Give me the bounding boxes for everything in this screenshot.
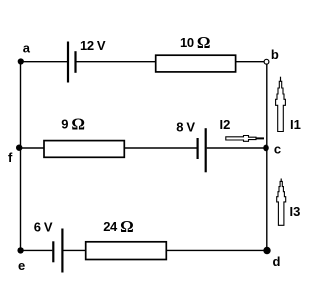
wire bottom: battery 6V to resistor 24	[63, 249, 85, 251]
svg-text:c: c	[274, 141, 281, 156]
current arrow I2 (pointing right)	[226, 136, 264, 142]
wire middle: resistor 9 to battery 8V	[124, 147, 196, 149]
wire middle: f to resistor 9	[21, 147, 45, 149]
svg-text:b: b	[271, 47, 279, 62]
wire bottom: e to battery 6V	[21, 249, 53, 251]
node e	[17, 247, 23, 253]
wire middle: battery 8V to node c	[207, 147, 267, 149]
wire top: a to battery 12V	[21, 61, 68, 63]
svg-text:12 V: 12 V	[80, 38, 106, 53]
node a	[18, 58, 24, 64]
svg-text:a: a	[23, 41, 31, 56]
svg-text:f: f	[8, 150, 13, 165]
node c	[263, 145, 269, 152]
node b (open circle)	[264, 59, 269, 64]
current arrow I3 (pointing up)	[277, 179, 286, 226]
svg-text:24 Ω: 24 Ω	[103, 217, 134, 236]
battery V3 6V plates	[53, 229, 62, 273]
svg-text:I2: I2	[220, 117, 231, 132]
resistor 9 ohm	[44, 141, 124, 158]
node d	[263, 247, 270, 254]
svg-text:I3: I3	[290, 204, 301, 219]
resistor 10 ohm	[156, 55, 236, 72]
wire bottom: resistor 24 to node d	[166, 249, 266, 251]
wire right vertical b-c-d	[266, 64, 268, 250]
battery V1 12V plates	[68, 42, 76, 83]
svg-text:8 V: 8 V	[176, 120, 195, 135]
svg-text:d: d	[273, 254, 281, 269]
node f	[16, 145, 22, 151]
svg-text:10 Ω: 10 Ω	[180, 33, 211, 52]
battery V2 8V plates	[198, 128, 206, 172]
svg-text:9 Ω: 9 Ω	[61, 115, 85, 134]
svg-text:6 V: 6 V	[34, 219, 53, 234]
svg-text:I1: I1	[290, 117, 301, 132]
wire left vertical a-f-e	[20, 62, 22, 251]
resistor 24 ohm	[86, 242, 167, 260]
current arrow I1 (pointing up)	[276, 77, 286, 132]
svg-text:e: e	[18, 258, 25, 273]
wire top: battery 12V to resistor 10	[77, 61, 156, 63]
wire top: resistor 10 to node b	[236, 61, 264, 63]
